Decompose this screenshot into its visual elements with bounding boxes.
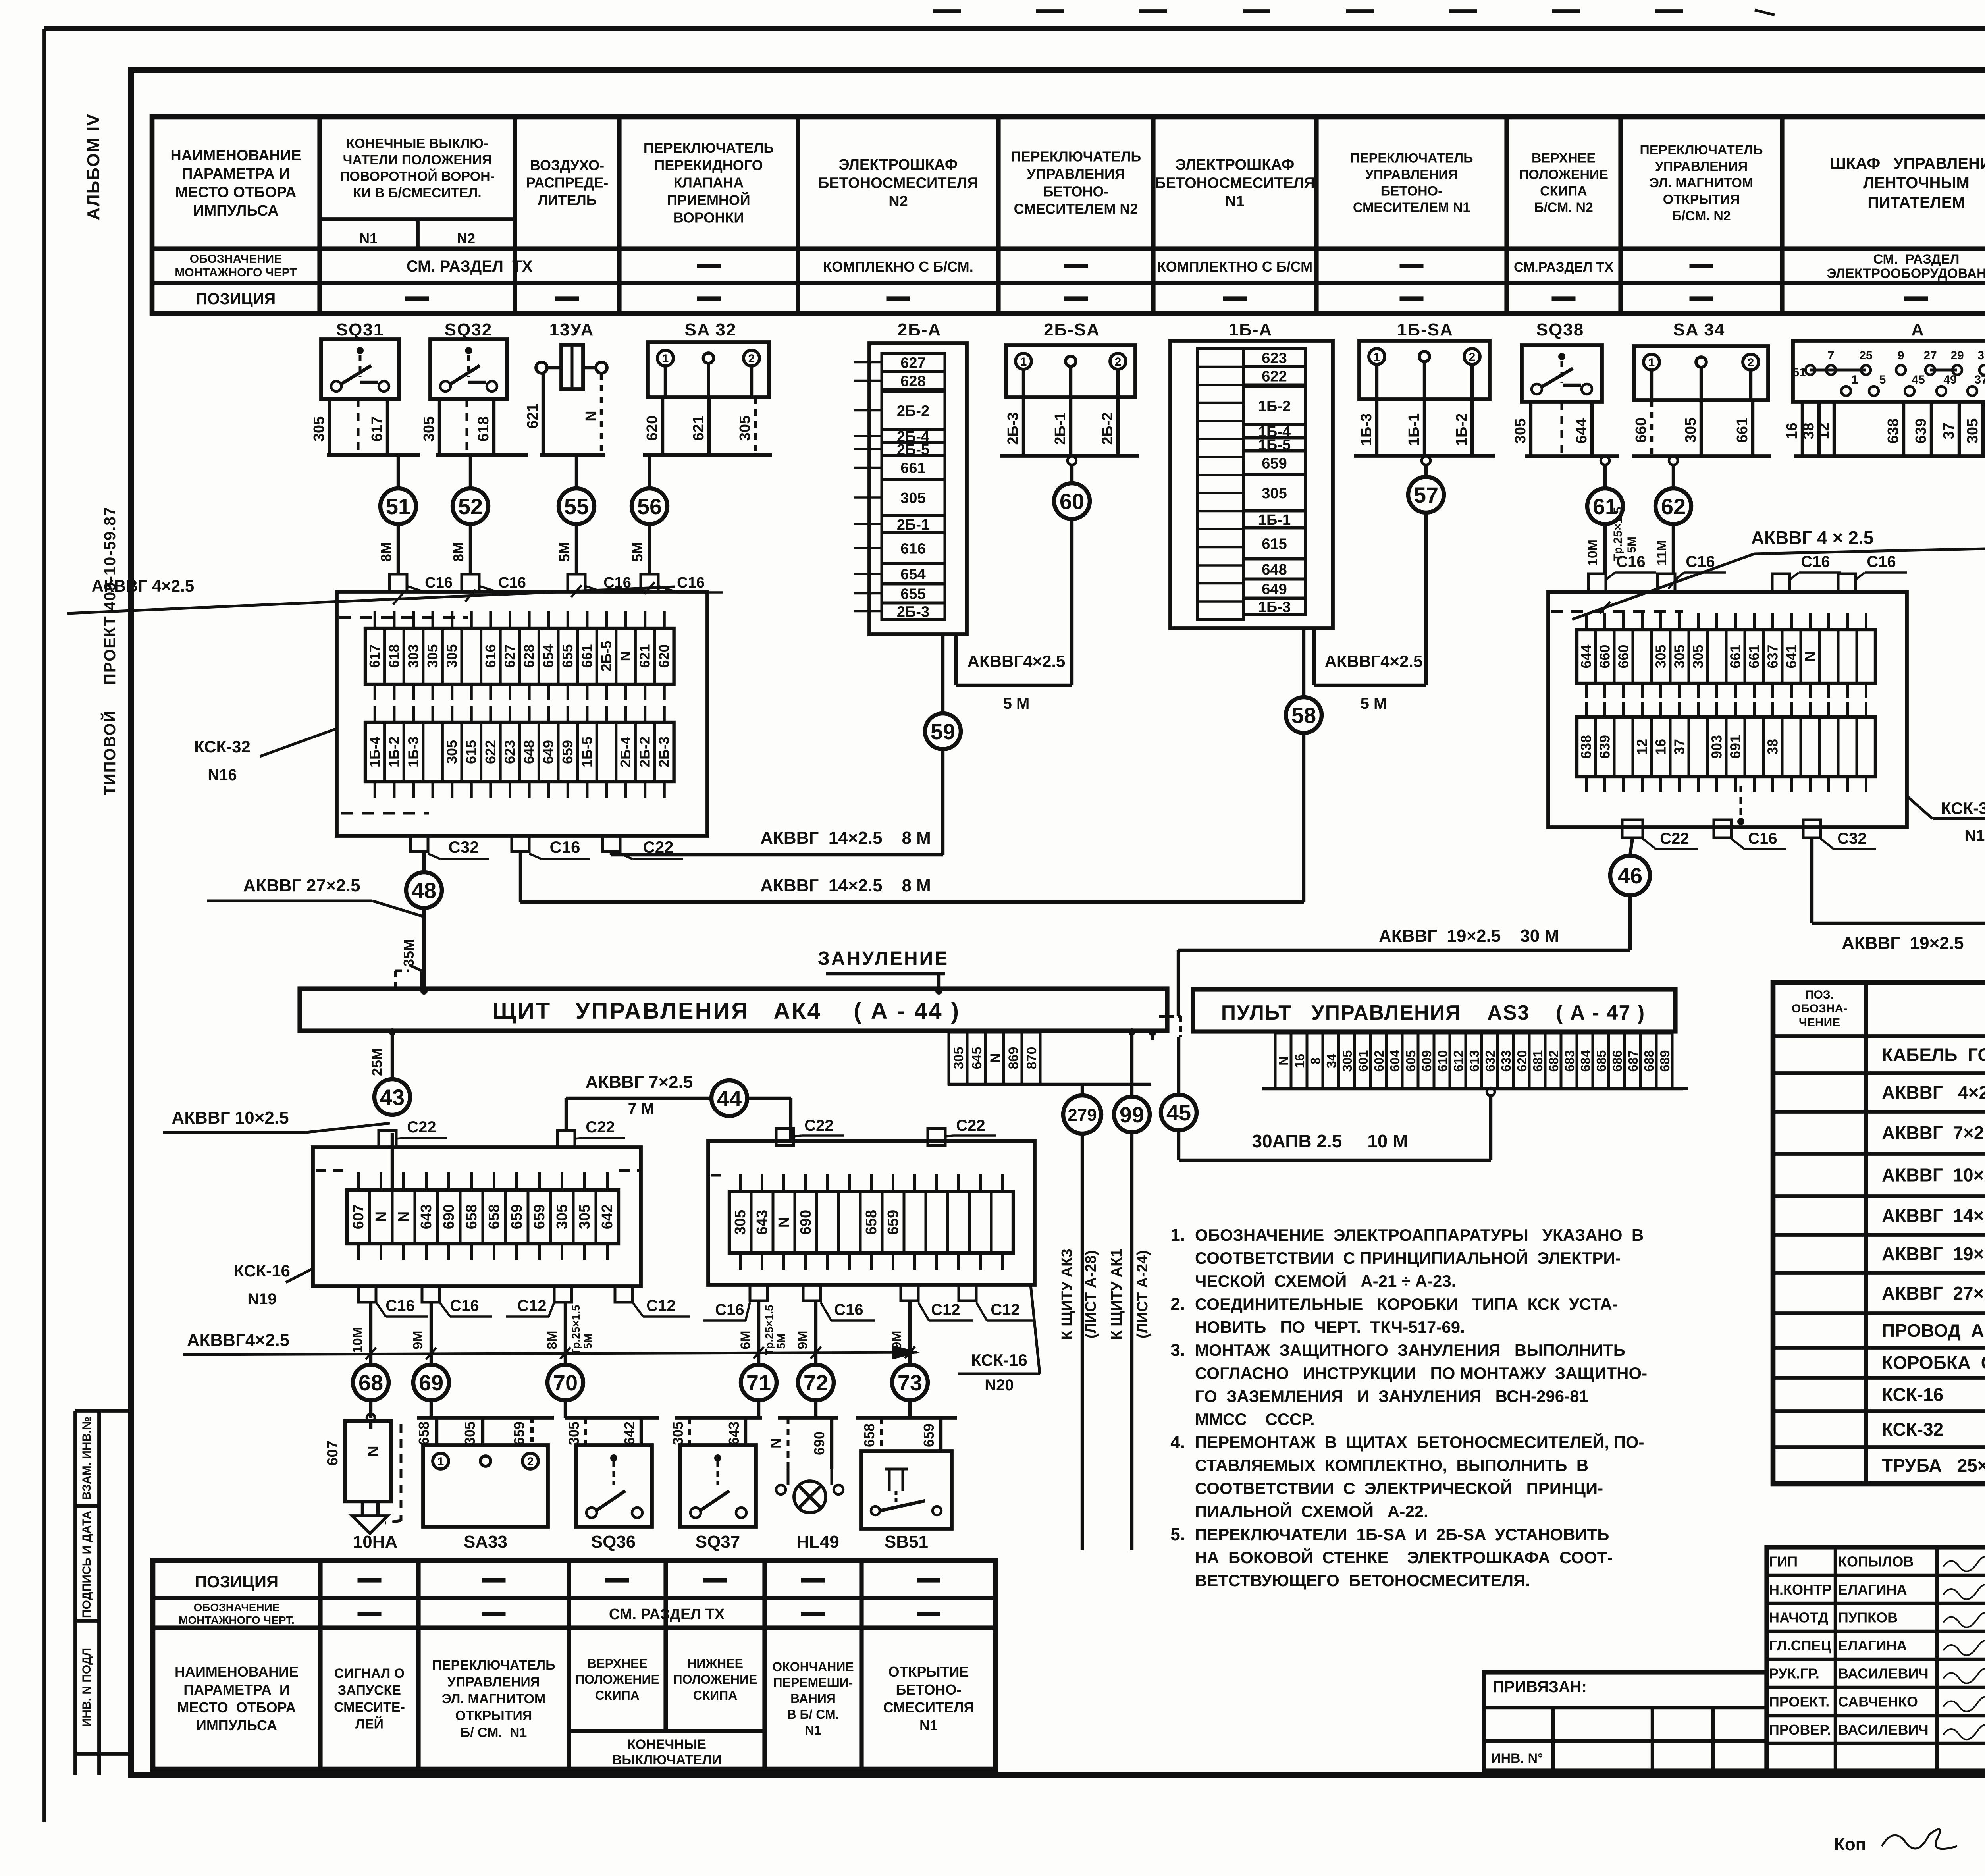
svg-text:1: 1 [662, 352, 669, 365]
svg-text:К ЩИТУ АК3: К ЩИТУ АК3 [1059, 1249, 1075, 1340]
svg-text:627: 627 [501, 644, 518, 668]
svg-text:68: 68 [358, 1370, 383, 1395]
svg-text:633: 633 [1499, 1050, 1513, 1072]
svg-text:1Б-1: 1Б-1 [1258, 512, 1291, 528]
svg-text:658: 658 [863, 1210, 880, 1235]
svg-text:5 М: 5 М [1003, 695, 1030, 712]
svg-text:60: 60 [1060, 489, 1084, 514]
svg-text:ПАРАМЕТРА И: ПАРАМЕТРА И [183, 1681, 289, 1698]
wire 617 of SQ31 [386, 399, 389, 455]
bus АК4 terminal comb (305 645 N 869 870) [948, 1031, 1151, 1084]
svg-text:616: 616 [482, 644, 499, 668]
wire 305 of SQ31 [328, 399, 331, 455]
wire node 72 down [814, 1401, 817, 1418]
wire node 70 down [564, 1401, 567, 1418]
wire 644 of SQ38 [1590, 402, 1594, 456]
svg-text:612: 612 [1451, 1050, 1466, 1072]
svg-text:КОРОБКА СОЕДИНИТЕЛЬНАЯ ТУ36.1: КОРОБКА СОЕДИНИТЕЛЬНАЯ ТУ36.1753-75 [1882, 1352, 1985, 1373]
node 57 [1408, 477, 1444, 513]
svg-text:КСК-32: КСК-32 [1941, 799, 1985, 817]
wire С22 to node 46 [1630, 838, 1632, 856]
KCK-16 N19 connector С16 a [358, 1286, 428, 1317]
connector С22 on N19 top b [557, 1118, 625, 1147]
selector switch 1Б-SA [1359, 320, 1490, 399]
grounding connector right (dashed) [1149, 1016, 1181, 1040]
node 55 [559, 488, 594, 524]
svg-text:59: 59 [931, 719, 955, 744]
KCK-16 N20 connector С12 a [901, 1285, 973, 1321]
node 72 [798, 1365, 834, 1400]
KCK-16 N19 connector С16 b [422, 1286, 492, 1317]
wire 305 of SQ32 [438, 399, 441, 455]
svg-text:АКВВГ4×2.5: АКВВГ4×2.5 [187, 1330, 289, 1350]
svg-text:305: 305 [1682, 418, 1699, 443]
svg-text:38: 38 [1764, 739, 1781, 755]
svg-text:681: 681 [1530, 1050, 1545, 1072]
connector С22 on N19 top [379, 1118, 447, 1147]
cable crossing ticks top-left diagonal [393, 582, 655, 605]
KCK-32 N17 connector С16 top stubs [1588, 553, 1907, 592]
svg-text:АКВВГ 19×2.5: АКВВГ 19×2.5 [1882, 1244, 1985, 1264]
svg-text:БЕТОНО-: БЕТОНО- [1381, 184, 1443, 199]
svg-text:1.: 1. [1170, 1225, 1185, 1245]
svg-text:ИНВ. N°: ИНВ. N° [1491, 1751, 1543, 1766]
svg-text:305: 305 [1964, 418, 1981, 443]
bottom table row2 cells [358, 1606, 941, 1623]
svg-text:КОМПЛЕКТНО С Б/СМ: КОМПЛЕКТНО С Б/СМ [1157, 258, 1312, 275]
svg-text:38: 38 [1800, 422, 1817, 439]
svg-text:8М: 8М [545, 1330, 560, 1349]
svg-text:ЭЛЕКТРОШКАФ: ЭЛЕКТРОШКАФ [839, 156, 958, 173]
SA32 cable bar [643, 453, 772, 457]
cable 57 down [1424, 513, 1428, 685]
svg-text:ГО ЗАЗЕМЛЕНИЯ И ЗАНУЛЕНИЯ: ГО ЗАЗЕМЛЕНИЯ И ЗАНУЛЕНИЯ ВСН-296-81 [1195, 1387, 1588, 1406]
svg-text:99: 99 [1120, 1102, 1144, 1127]
svg-text:8М: 8М [450, 542, 466, 562]
svg-text:ЭЛЕКТРОШКАФ: ЭЛЕКТРОШКАФ [1176, 156, 1295, 173]
1Б-SA cable bar [1354, 454, 1495, 458]
svg-text:ЛИТЕЛЬ: ЛИТЕЛЬ [538, 192, 596, 208]
svg-text:N16: N16 [208, 766, 237, 784]
wire 2Б-2 [1116, 397, 1120, 456]
svg-text:ЭЛ. МАГНИТОМ: ЭЛ. МАГНИТОМ [1650, 175, 1753, 191]
svg-text:12: 12 [1634, 739, 1650, 755]
connector С22 on N20 top a [776, 1117, 844, 1145]
svg-text:ГИП: ГИП [1769, 1554, 1798, 1570]
svg-text:10М: 10М [350, 1327, 365, 1353]
wire 1Б-1 [1423, 399, 1426, 456]
svg-text:622: 622 [482, 740, 499, 764]
svg-text:НА БОКОВОЙ СТЕНКЕ ЭЛЕКТРО: НА БОКОВОЙ СТЕНКЕ ЭЛЕКТРОШКАФА СООТ- [1195, 1548, 1613, 1567]
svg-text:57: 57 [1414, 482, 1438, 507]
svg-text:691: 691 [1727, 735, 1743, 759]
svg-text:N: N [776, 1217, 792, 1228]
A cable bar [1794, 454, 1985, 458]
svg-text:34: 34 [1324, 1053, 1339, 1068]
svg-text:ТРУБА 25×1.5 ТУ6.19.051-2: ТРУБА 25×1.5 ТУ6.19.051-249-79 [1882, 1455, 1985, 1476]
svg-text:616: 616 [900, 541, 925, 557]
svg-text:648: 648 [1262, 561, 1287, 578]
bottom cable bar SQ37 [675, 1416, 762, 1420]
top scan artifact dotted line [933, 10, 1775, 15]
svg-text:С22: С22 [804, 1117, 833, 1134]
svg-text:ЗАНУЛЕНИЕ: ЗАНУЛЕНИЕ [818, 948, 949, 969]
privyazan box [1484, 1672, 1767, 1771]
svg-text:ПРОЕКТ 409-10-59.87: ПРОЕКТ 409-10-59.87 [101, 506, 119, 685]
svg-text:2Б-2: 2Б-2 [1099, 412, 1116, 445]
svg-text:АКВВГ 14×2.5 8 М: АКВВГ 14×2.5 8 М [760, 828, 931, 848]
svg-text:ВОРОНКИ: ВОРОНКИ [673, 209, 744, 226]
svg-text:НОВИТЬ ПО ЧЕРТ. ТКЧ-517-69: НОВИТЬ ПО ЧЕРТ. ТКЧ-517-69. [1195, 1318, 1465, 1336]
wire to node 62 [1672, 465, 1675, 488]
svg-text:622: 622 [1262, 368, 1287, 385]
svg-text:642: 642 [599, 1204, 616, 1229]
KCK-32 N16 connector С32 [410, 836, 489, 859]
wire 618 of SQ32 [492, 399, 495, 455]
svg-text:2Б-SA: 2Б-SA [1044, 320, 1100, 339]
wire to node 61 [1603, 465, 1607, 488]
svg-text:639: 639 [1596, 735, 1613, 759]
svg-text:658: 658 [416, 1421, 432, 1445]
svg-text:ТИПОВОЙ: ТИПОВОЙ [100, 710, 119, 796]
wire to node 56 [648, 455, 651, 488]
svg-text:СООТВЕТСТВИИ С ЭЛЕКТРИЧЕСКОЙ: СООТВЕТСТВИИ С ЭЛЕКТРИЧЕСКОЙ ПРИНЦИ- [1195, 1479, 1603, 1498]
cable crossing ticks middle diagonal [1600, 577, 1679, 613]
svg-text:БЕТОНО-: БЕТОНО- [1043, 183, 1109, 200]
cabinet A terminal contacts [1792, 349, 1985, 396]
svg-text:1Б-А: 1Б-А [1229, 320, 1273, 339]
svg-text:2Б-1: 2Б-1 [897, 517, 929, 533]
svg-text:641: 641 [1783, 644, 1799, 668]
svg-text:659: 659 [511, 1421, 527, 1445]
svg-text:1Б-2: 1Б-2 [1453, 413, 1470, 446]
svg-text:СКИПА: СКИПА [595, 1688, 640, 1702]
svg-text:N: N [767, 1438, 784, 1448]
node 69 [413, 1365, 449, 1400]
svg-text:1Б-SА: 1Б-SА [1397, 320, 1453, 339]
svg-text:ПОВОРОТНОЙ ВОРОН-: ПОВОРОТНОЙ ВОРОН- [340, 169, 495, 184]
svg-text:1Б-2: 1Б-2 [1258, 398, 1291, 415]
svg-text:658: 658 [861, 1423, 877, 1447]
svg-text:С16: С16 [1867, 553, 1896, 571]
cable АКВВГ4х2.5 bottom designation line [183, 1330, 917, 1358]
svg-text:СМЕСИТЕЛЯ: СМЕСИТЕЛЯ [883, 1699, 974, 1716]
svg-text:SA33: SA33 [464, 1532, 507, 1552]
svg-text:ЗАПУСКЕ: ЗАПУСКЕ [338, 1683, 401, 1698]
svg-text:ОБОЗНАЧЕНИЕ ЭЛЕКТРОАППАРАТУРЫ: ОБОЗНАЧЕНИЕ ЭЛЕКТРОАППАРАТУРЫ УКАЗАНО В [1195, 1226, 1644, 1244]
svg-text:ПЕРЕМЕШИ-: ПЕРЕМЕШИ- [773, 1675, 853, 1690]
svg-text:N: N [988, 1053, 1003, 1063]
limit switch SQ31 [321, 320, 399, 399]
wire 99 down to АК1 [1130, 1132, 1133, 1550]
svg-text:N17: N17 [1964, 827, 1985, 844]
svg-text:35М: 35М [401, 939, 417, 967]
svg-text:ЧЕСКОЙ СХЕМОЙ А-21 ÷ А-23.: ЧЕСКОЙ СХЕМОЙ А-21 ÷ А-23. [1195, 1271, 1456, 1290]
KCK-32 N16 connector С22 [603, 836, 683, 859]
wire 643 of SQ37 [726, 1418, 746, 1445]
wire to node 51 [397, 455, 400, 488]
node 58 [1302, 628, 1305, 697]
svg-text:661: 661 [900, 460, 925, 477]
svg-text:С16: С16 [834, 1301, 863, 1319]
svg-text:618: 618 [386, 644, 402, 668]
wire 659 of SA33 [511, 1418, 532, 1445]
wire 620 of SA32 [661, 397, 664, 455]
cable АКВВГ 14х2.5 8м (С16 to 58) [520, 734, 1304, 902]
svg-text:ПЕРЕКЛЮЧАТЕЛЬ: ПЕРЕКЛЮЧАТЕЛЬ [1350, 151, 1473, 166]
wire 61 to KCK-32 N17 [1603, 524, 1607, 574]
svg-text:5М: 5М [582, 1334, 594, 1349]
node 99 [1114, 1097, 1150, 1132]
svg-text:С12: С12 [991, 1301, 1019, 1319]
svg-text:N: N [365, 1446, 382, 1456]
svg-text:СКИПА: СКИПА [1540, 184, 1587, 199]
wire 305 of SQ36 [566, 1418, 586, 1445]
svg-text:620: 620 [644, 416, 661, 441]
wire 37 of A [1958, 402, 1961, 456]
svg-text:607: 607 [324, 1440, 341, 1465]
svg-text:БЕТОНОСМЕСИТЕЛЯ: БЕТОНОСМЕСИТЕЛЯ [818, 175, 978, 191]
svg-text:690: 690 [811, 1431, 827, 1455]
svg-text:N1: N1 [805, 1723, 821, 1737]
selector switch SA32 [648, 320, 769, 397]
svg-text:615: 615 [1262, 536, 1287, 553]
svg-text:655: 655 [559, 644, 576, 668]
svg-text:2Б-А: 2Б-А [898, 320, 942, 339]
svg-text:305: 305 [670, 1421, 686, 1445]
svg-text:ПЕРЕКЛЮЧАТЕЛИ 1Б-SA И 2Б-SA: ПЕРЕКЛЮЧАТЕЛИ 1Б-SA И 2Б-SA УСТАНОВИТЬ [1195, 1525, 1609, 1544]
KCK-16 N20 internal dashed line [711, 1174, 727, 1177]
svg-text:16: 16 [1652, 739, 1669, 755]
SA34 cable bar [1632, 454, 1771, 458]
limit switch SQ32 [430, 320, 507, 399]
svg-text:5 М: 5 М [1361, 695, 1387, 712]
svg-text:1: 1 [1374, 351, 1380, 364]
svg-text:N19: N19 [247, 1290, 276, 1308]
svg-text:648: 648 [521, 740, 537, 764]
svg-text:ВЗАМ. ИНВ.№: ВЗАМ. ИНВ.№ [80, 1417, 93, 1500]
KCK-32 N16 connector С16 [512, 836, 590, 859]
wire 56 to KCK-32 N16 [648, 524, 651, 574]
bottom table row labels [179, 1572, 295, 1626]
wire 642 of SQ36 [621, 1418, 641, 1445]
SQ38 cable bar [1525, 454, 1619, 458]
svg-text:С22: С22 [956, 1117, 985, 1134]
wire 48 to bus АК4 [422, 908, 426, 989]
svg-text:ПАРАМЕТРА И: ПАРАМЕТРА И [182, 166, 290, 182]
mechanical link SQ31 [357, 399, 360, 455]
svg-text:25М: 25М [369, 1048, 385, 1076]
svg-text:ВАНИЯ: ВАНИЯ [790, 1691, 836, 1706]
node 71 [741, 1365, 777, 1400]
KCK-16 N19 connector С12 a [506, 1286, 572, 1317]
wire 62 to KCK-32 N17 [1672, 524, 1675, 574]
svg-text:25: 25 [1859, 349, 1872, 362]
svg-text:305: 305 [1512, 418, 1529, 443]
svg-text:685: 685 [1594, 1050, 1609, 1072]
svg-text:305: 305 [732, 1210, 749, 1235]
svg-text:305: 305 [576, 1204, 593, 1229]
wire 2Б-3 [1022, 397, 1025, 456]
svg-text:3.: 3. [1170, 1340, 1185, 1360]
svg-text:1Б-2: 1Б-2 [386, 737, 402, 767]
svg-text:ПЕРЕКИДНОГО: ПЕРЕКИДНОГО [654, 157, 763, 174]
svg-text:С16: С16 [498, 575, 526, 591]
svg-text:684: 684 [1578, 1050, 1593, 1072]
svg-text:10НА: 10НА [353, 1532, 398, 1552]
bottom table конечные выключатели [612, 1737, 722, 1768]
KCK-32 N17 connector С16 bottom [1622, 820, 1698, 849]
svg-text:Б/СМ. N2: Б/СМ. N2 [1534, 200, 1593, 215]
wire node 71 down [757, 1401, 760, 1418]
svg-text:ЛЕЙ: ЛЕЙ [355, 1716, 384, 1732]
svg-text:С16: С16 [715, 1301, 744, 1319]
svg-text:КСК-16: КСК-16 [971, 1351, 1027, 1369]
svg-text:601: 601 [1356, 1050, 1370, 1072]
left margin column lines [75, 1411, 131, 1775]
materials table grid [1773, 983, 1985, 1484]
svg-text:С16: С16 [549, 838, 580, 856]
svg-text:ПУЛЬТ УПРАВЛЕНИЯ АS3 (: ПУЛЬТ УПРАВЛЕНИЯ АS3 ( А - 47 ) [1221, 1001, 1645, 1024]
svg-text:305: 305 [444, 644, 460, 668]
wire to node 279 [1081, 1084, 1084, 1097]
KCK-32 N17 connector С16 bottom [1714, 786, 1786, 849]
svg-text:607: 607 [350, 1204, 367, 1229]
label Зануление [818, 948, 949, 995]
svg-text:ВЕРХНЕЕ: ВЕРХНЕЕ [1532, 151, 1596, 166]
node 44 and cable АКВВГ 7х2.5 7м [566, 1072, 711, 1130]
KCK-32 N16 upper terminal comb [365, 628, 674, 684]
svg-text:618: 618 [475, 416, 492, 442]
svg-text:МОНТАЖНОГО ЧЕРТ: МОНТАЖНОГО ЧЕРТ [175, 266, 297, 279]
svg-text:ВЕРХНЕЕ: ВЕРХНЕЕ [587, 1656, 648, 1671]
wire to node 57 [1424, 465, 1428, 476]
svg-text:ПОЗИЦИЯ: ПОЗИЦИЯ [195, 1572, 278, 1591]
svg-text:SA 34: SA 34 [1673, 320, 1725, 339]
svg-text:КИ В Б/СМЕСИТЕЛ.: КИ В Б/СМЕСИТЕЛ. [353, 185, 481, 201]
svg-text:305: 305 [1690, 644, 1706, 668]
svg-text:САВЧЕНКО: САВЧЕНКО [1838, 1694, 1918, 1710]
wire 305 of SA33 [462, 1418, 483, 1445]
svg-text:N: N [1802, 652, 1818, 662]
node 59 [925, 713, 961, 749]
svg-text:АКВВГ 27×2.5: АКВВГ 27×2.5 [1882, 1283, 1985, 1303]
wire N of 13УА [600, 373, 603, 455]
svg-text:СМ. РАЗДЕЛ ТХ: СМ. РАЗДЕЛ ТХ [407, 258, 533, 275]
materials table header [1792, 988, 1985, 1029]
svg-text:СМ. РАЗДЕЛ ТХ: СМ. РАЗДЕЛ ТХ [609, 1606, 725, 1623]
svg-text:623: 623 [1262, 350, 1287, 367]
svg-text:С12: С12 [517, 1297, 546, 1315]
cable АКВВГ 19х2.5 7м from С32 [1812, 838, 1985, 976]
title block signatures [1769, 1554, 1985, 1740]
svg-text:HL49: HL49 [796, 1532, 839, 1552]
svg-text:1Б-4: 1Б-4 [366, 737, 383, 767]
wire 658 of SB51 [861, 1418, 881, 1451]
svg-text:Тр.25×1.5: Тр.25×1.5 [570, 1305, 582, 1355]
svg-text:УПРАВЛЕНИЯ: УПРАВЛЕНИЯ [1027, 166, 1125, 182]
wire to node 52 [469, 455, 472, 488]
svg-text:2Б-4: 2Б-4 [617, 737, 634, 767]
svg-text:АКВВГ4×2.5: АКВВГ4×2.5 [1325, 652, 1423, 671]
node 68 [353, 1365, 389, 1400]
svg-text:ПОЗ.: ПОЗ. [1805, 988, 1834, 1001]
node 43 and cable 25м [389, 1028, 396, 1079]
notes text block [1170, 1225, 1647, 1590]
13УА cable bar [540, 453, 605, 457]
header row3 dashes [405, 296, 1985, 301]
cable crossing ticks bottom line [366, 1346, 915, 1359]
svg-text:2Б-1: 2Б-1 [1052, 412, 1069, 445]
svg-text:37: 37 [1974, 373, 1985, 386]
KCK-16 N20 terminal comb [729, 1192, 1013, 1253]
svg-text:SB51: SB51 [885, 1532, 928, 1552]
svg-text:КСК-32: КСК-32 [194, 737, 251, 756]
svg-text:СОГЛАСНО ИНСТРУКЦИИ ПО МОН: СОГЛАСНО ИНСТРУКЦИИ ПО МОНТАЖУ ЗАЩИТНО- [1195, 1364, 1647, 1382]
wire 661 of SA34 [1751, 400, 1754, 456]
cable marker Тр.25х1.5 5м [1611, 507, 1638, 561]
terminal dot of 1Б-SA [1422, 456, 1430, 465]
svg-text:АКВВГ 4×2.5: АКВВГ 4×2.5 [1882, 1082, 1985, 1103]
node 45 [1161, 1095, 1197, 1130]
svg-text:660: 660 [1633, 418, 1650, 443]
wire 305 of SQ38 [1529, 402, 1532, 456]
KCK-16 N20 connector С16 a [703, 1285, 767, 1321]
svg-text:687: 687 [1626, 1050, 1640, 1072]
svg-text:659: 659 [509, 1204, 525, 1229]
svg-text:ЧАТЕЛИ ПОЛОЖЕНИЯ: ЧАТЕЛИ ПОЛОЖЕНИЯ [343, 152, 492, 168]
svg-text:ВОЗДУХО-: ВОЗДУХО- [530, 157, 604, 174]
terminal dot SA34 [1669, 456, 1678, 465]
SQ32 cable bar [436, 453, 528, 457]
svg-text:МОНТАЖНОГО ЧЕРТ.: МОНТАЖНОГО ЧЕРТ. [179, 1614, 295, 1626]
svg-text:КСК-16: КСК-16 [1882, 1384, 1943, 1405]
svg-text:СМ.РАЗДЕЛ ТХ: СМ.РАЗДЕЛ ТХ [1514, 260, 1613, 275]
svg-text:СОЕДИНИТЕЛЬНЫЕ КОРОБКИ ТИП: СОЕДИНИТЕЛЬНЫЕ КОРОБКИ ТИПА КСК УСТА- [1195, 1295, 1618, 1313]
svg-text:661: 661 [1734, 418, 1751, 443]
svg-text:4.: 4. [1170, 1433, 1185, 1452]
svg-text:51: 51 [386, 494, 410, 519]
svg-text:1: 1 [1020, 355, 1027, 368]
svg-text:СМ. РАЗДЕЛ: СМ. РАЗДЕЛ [1873, 252, 1959, 267]
svg-text:МЕСТО ОТБОРА: МЕСТО ОТБОРА [177, 1699, 296, 1716]
cable АКВВГ 27х2.5 designation [207, 876, 423, 916]
svg-text:638: 638 [1885, 418, 1902, 443]
svg-text:ПЕРЕМОНТАЖ В ЩИТАХ БЕТОНОСМ: ПЕРЕМОНТАЖ В ЩИТАХ БЕТОНОСМЕСИТЕЛЕЙ, ПО- [1195, 1433, 1644, 1452]
svg-text:КОМПЛЕКНО С Б/СМ.: КОМПЛЕКНО С Б/СМ. [823, 258, 973, 275]
junction box KCK-16 N19 outline [313, 1147, 641, 1286]
cabinet strip 1Б-А [1170, 320, 1333, 628]
node 56 [632, 488, 667, 524]
wire to node 99 [1130, 1031, 1133, 1096]
svg-text:N: N [583, 411, 599, 421]
svg-text:643: 643 [726, 1421, 742, 1445]
svg-text:613: 613 [1467, 1050, 1482, 1072]
air valve solenoid 13УА [536, 320, 607, 389]
svg-text:2Б-3: 2Б-3 [897, 604, 929, 621]
svg-text:ПРОВЕР.: ПРОВЕР. [1769, 1722, 1831, 1738]
selector switch SA33 [423, 1445, 548, 1527]
svg-text:СООТВЕТСТВИИ С ПРИНЦИПИАЛЬНОЙ: СООТВЕТСТВИИ С ПРИНЦИПИАЛЬНОЙ ЭЛЕКТРИ- [1195, 1248, 1621, 1267]
svg-text:ЧЕНИЕ: ЧЕНИЕ [1799, 1016, 1840, 1029]
svg-text:639: 639 [1913, 418, 1929, 443]
svg-text:2Б-3: 2Б-3 [1005, 412, 1021, 445]
svg-text:8М: 8М [378, 542, 394, 562]
svg-text:5: 5 [1879, 373, 1886, 386]
cable АКВВГ 4х2.5 middle designation [1572, 527, 1985, 619]
svg-text:ПЕРЕКЛЮЧАТЕЛЬ: ПЕРЕКЛЮЧАТЕЛЬ [644, 140, 774, 156]
wire 305 of SA32 [754, 397, 757, 455]
